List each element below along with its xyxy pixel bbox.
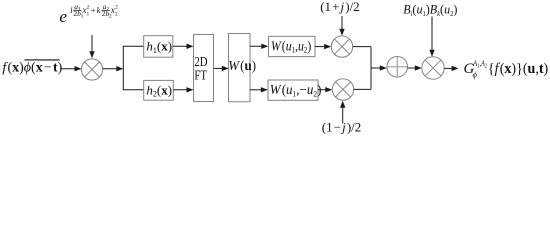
wire M1 to split junction: [103, 66, 124, 71]
wire h1 to 2D FT: [173, 44, 194, 49]
svg-text:2: 2: [115, 5, 118, 11]
filter box h1: [144, 36, 173, 58]
svg-text:W (u): W (u): [228, 58, 256, 74]
svg-text:+: +: [91, 5, 96, 15]
arrow chirp to M1: [89, 35, 94, 58]
svg-text:2: 2: [115, 11, 118, 17]
split junction vertical wire: [122, 46, 124, 90]
svg-text:h2(x): h2(x): [146, 82, 172, 98]
svg-text:ϕ: ϕ: [473, 70, 478, 80]
multiplier M3: [332, 79, 353, 100]
svg-text:f (x)ϕ(x − t): f (x)ϕ(x − t): [2, 61, 62, 76]
wire M4 to output: [444, 66, 458, 71]
wire input to multiplier M1: [61, 66, 82, 71]
adder A1: [387, 57, 408, 78]
svg-text:{f (x)}(u,t): {f (x)}(u,t): [488, 60, 548, 77]
wire M2 to combine bracket: [353, 46, 371, 48]
wire 2D FT to W(u): [214, 66, 229, 71]
wire junction to h2: [123, 89, 144, 91]
svg-text:2: 2: [87, 5, 90, 11]
wire W(u1,-u2) to M3: [318, 87, 332, 92]
svg-text:(1 − j )/2: (1 − j )/2: [322, 119, 362, 134]
W(u) box: [228, 34, 256, 102]
multiplier M2: [331, 36, 352, 57]
svg-text:(1 + j )/2: (1 + j )/2: [320, 0, 360, 14]
svg-text:e: e: [59, 7, 67, 26]
svg-text:h1(x): h1(x): [146, 39, 172, 55]
svg-text:1: 1: [87, 11, 90, 17]
arrow (1+j)/2 to M2: [339, 16, 344, 36]
wire W(u) to W(u1,u2): [250, 44, 268, 49]
wire h2 to 2D FT: [173, 87, 193, 92]
multiplier M4: [422, 57, 444, 79]
svg-text:FT: FT: [194, 67, 207, 83]
combine bracket vertical wire: [370, 47, 372, 90]
wire M3 to combine bracket: [354, 88, 371, 90]
arrow B label to M4: [429, 17, 434, 57]
wire junction to h1: [123, 45, 144, 47]
wire W(u1,u2) to M2: [315, 44, 331, 49]
filter box h2: [144, 80, 174, 100]
wire bracket to adder: [371, 65, 387, 70]
arrow (1-j)/2 to M3: [340, 101, 345, 124]
svg-text:k: k: [97, 5, 101, 15]
wire adder to M4: [408, 65, 422, 70]
chirp label e^(i a1/2b1 x1^2 + k a2/2b2 x2^2): [59, 2, 118, 26]
box W(u1,u2): [269, 36, 316, 56]
output label G: [464, 59, 549, 79]
conjugate overline: [25, 59, 60, 61]
2D FT box: [194, 35, 214, 102]
multiplier M1: [81, 59, 102, 80]
wire W(u) to W(u1,-u2): [250, 87, 268, 92]
box W(u1,-u2): [268, 80, 321, 100]
